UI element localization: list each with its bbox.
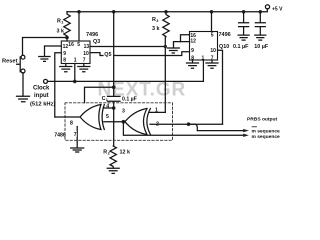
wire U1 pin 8 to ground <box>65 64 67 67</box>
+5V terminal <box>265 5 269 9</box>
node: rail junction at pin5 U1 <box>77 10 81 14</box>
svg-text:Reset: Reset <box>2 58 18 64</box>
svg-text:0.1 µF: 0.1 µF <box>233 44 249 50</box>
svg-text:12 k: 12 k <box>120 149 131 155</box>
svg-text:10: 10 <box>83 51 89 57</box>
wire clock line <box>48 80 204 82</box>
node: rail junction at R3 <box>164 10 168 14</box>
svg-text:10: 10 <box>210 48 216 54</box>
wire 7486 Vcc branch <box>85 87 114 103</box>
resistor R1 3k <box>57 12 71 38</box>
wire 7486 pin 7 to ground <box>76 127 78 148</box>
wire U1 pin 9 to XOR output <box>55 53 62 117</box>
svg-text:4: 4 <box>106 104 109 110</box>
svg-text:13: 13 <box>84 44 90 50</box>
svg-text:input: input <box>34 93 49 99</box>
node: R3/Q3 junction <box>164 45 167 48</box>
m-bar sequence label <box>252 127 281 135</box>
svg-text:Q5: Q5 <box>104 52 111 58</box>
svg-text:5: 5 <box>106 114 109 120</box>
reset pushbutton switch <box>17 55 25 73</box>
clock input terminal <box>44 79 48 83</box>
svg-text:3 k: 3 k <box>152 26 160 32</box>
node: rail junction at C3 <box>259 10 263 14</box>
wire Q5: U1 pin 10 to U2 pin 9 <box>90 52 190 56</box>
wire U2 pin 7 to ground <box>211 60 213 63</box>
wire U1 pin 5 to rail <box>78 12 80 41</box>
IC U1 7496 <box>61 32 98 64</box>
svg-text:3 k: 3 k <box>57 29 65 35</box>
wire XOR2 input 1 <box>149 111 165 113</box>
wire XOR1 input 5 from XOR2 output <box>104 121 124 123</box>
node: m-bar tap junction <box>187 122 191 126</box>
wire U1 pin 7 to ground <box>83 64 85 67</box>
wire U2 pin 5 to rail <box>211 12 213 32</box>
ground (U1 pin 12) <box>39 57 50 62</box>
dashed box around 7486 gates <box>65 103 173 141</box>
ground (U2 pin 7) <box>206 63 218 68</box>
svg-text:Clock: Clock <box>33 86 50 92</box>
capacitor C1 0.1uF <box>102 96 137 108</box>
svg-text:9: 9 <box>191 48 194 54</box>
wire R3 / Q3 down to XOR2 input 1 <box>164 37 166 113</box>
svg-text:3: 3 <box>156 18 159 23</box>
IC U2 7496 <box>190 32 231 62</box>
ground (U1 pin 8) <box>60 67 72 72</box>
node: Vcc branch junction <box>112 86 116 90</box>
wire m sequence output <box>123 122 243 136</box>
node: R1 bottom / pin16 junction <box>65 36 69 40</box>
svg-text:7496: 7496 <box>219 32 231 38</box>
wire U2 pin 16 to ground <box>181 35 190 42</box>
node: XOR2 output junction <box>122 120 126 124</box>
svg-text:Q3: Q3 <box>93 39 100 45</box>
arrow m <box>243 134 249 137</box>
svg-text:+5 V: +5 V <box>272 6 283 12</box>
svg-text:1: 1 <box>74 58 77 64</box>
svg-text:m sequence: m sequence <box>252 135 281 140</box>
resistor R2 12k <box>103 146 130 168</box>
wire XOR1 output to U1 pin 9 <box>55 116 80 118</box>
ground (R2) <box>107 168 119 173</box>
ground (U2 pins 16,12) <box>167 48 179 53</box>
wire XOR1 input 4 <box>103 107 113 109</box>
svg-text:0.1 µF: 0.1 µF <box>122 96 137 102</box>
ground (7486 pin 7) <box>71 148 84 152</box>
wire reset to R1 bottom <box>23 38 68 56</box>
svg-text:PRBS output: PRBS output <box>247 117 278 123</box>
svg-text:7496: 7496 <box>86 32 98 38</box>
svg-text:12: 12 <box>190 39 196 45</box>
wire Q10: U2 pin 10 down to XOR2 input 2 <box>218 50 223 124</box>
wire U1 pin 12 to ground <box>45 46 62 56</box>
wire +5V feed down to C1 and 7486 Vcc <box>113 12 115 97</box>
wire reset switch to ground <box>22 73 24 96</box>
svg-text:8: 8 <box>63 58 66 64</box>
svg-text:(512 kHz): (512 kHz) <box>30 102 56 108</box>
ground (C3) <box>255 35 266 40</box>
node: rail junction at pin5 U2 <box>210 10 214 14</box>
svg-text:1: 1 <box>61 20 64 25</box>
svg-text:5: 5 <box>77 42 80 48</box>
node Q5 <box>104 50 114 58</box>
svg-text:m sequence: m sequence <box>252 129 281 134</box>
svg-text:3: 3 <box>122 109 125 115</box>
ground (C2) <box>238 35 249 40</box>
svg-text:5: 5 <box>211 32 214 38</box>
svg-text:16: 16 <box>68 42 74 48</box>
wire U2 pin 1 to clock line <box>202 60 204 81</box>
arrow m-bar <box>243 129 249 132</box>
+5V rail wire <box>67 9 267 12</box>
ground (U2 pin 8) <box>187 63 199 68</box>
wire C1 junction down to R2 <box>113 108 115 146</box>
svg-text:7: 7 <box>83 58 86 64</box>
wire Q3: U1 pin 13 to XOR2 input 1 vertical <box>90 46 165 48</box>
svg-text:8: 8 <box>70 120 73 126</box>
svg-text:7: 7 <box>74 132 77 138</box>
op... XOR gate U3a (7486 left gate) <box>70 104 109 130</box>
ground (U1 pin 7) <box>78 67 90 72</box>
capacitor C3 10uF <box>254 12 269 51</box>
svg-text:NEXT.GR: NEXT.GR <box>98 80 187 101</box>
wire XOR2 input 2 / Q10 line <box>150 123 223 125</box>
wire U2 pin 8 to ground <box>192 60 194 63</box>
node: rail junction at C2 <box>242 10 246 14</box>
wire U2 pin 12 to ground <box>174 42 190 48</box>
svg-text:Q10: Q10 <box>219 44 229 50</box>
wire U1 pin 1 to clock line <box>74 64 76 82</box>
node: clock / U1 pin1 junction <box>73 80 77 84</box>
svg-text:9: 9 <box>63 51 66 57</box>
capacitor C2 0.1uF <box>233 12 249 51</box>
svg-text:7486: 7486 <box>54 132 66 138</box>
wire m-bar sequence output <box>189 124 244 130</box>
svg-text:10 µF: 10 µF <box>254 44 269 50</box>
XOR gate U3b (7486 right gate) <box>122 108 159 135</box>
resistor R3 3k <box>152 12 169 37</box>
node: rail junction at Vcc feed <box>112 10 116 14</box>
ground (reset) <box>17 96 30 101</box>
node: C1 / XOR1 input 4 junction <box>112 106 116 110</box>
wire R1 bottom to U1 pin 16 <box>66 38 68 42</box>
